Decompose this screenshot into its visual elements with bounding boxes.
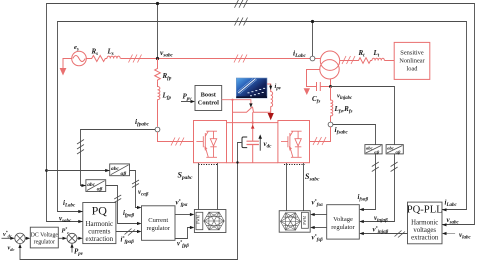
wire: v_sabc to transform A: [47, 170, 110, 172]
Current regulator box: [142, 206, 176, 241]
wire: v_injab to voltage regulator: [360, 154, 394, 222]
slashes after transformer: [342, 56, 355, 64]
sensor i_fsabc: [328, 122, 333, 127]
source e_s: [63, 51, 86, 68]
DC link rails: [227, 100, 278, 163]
slashes on bus lines: [235, 0, 248, 26]
red arrow on dc rail: [251, 125, 255, 129]
wire: i_fsabc sense to transform C: [333, 125, 376, 145]
svg-text:Nonlinear: Nonlinear: [399, 58, 425, 65]
pv current arrow into dc bus: [268, 113, 274, 120]
inductor Lt: [372, 58, 384, 60]
inductor Ls: [107, 56, 120, 58]
PQ box: [83, 203, 116, 244]
wire: v_injabc sense to transform D: [331, 87, 395, 145]
svg-text:PWM: PWM: [197, 214, 201, 223]
wire: v_sabc sense bus (top line): [47, 4, 475, 225]
shunt branch: Rfp: [155, 59, 161, 82]
wire: i_Labc sense bus (second line): [58, 22, 467, 212]
svg-text:extraction: extraction: [86, 236, 114, 243]
PQ-PLL input arrows: [442, 208, 447, 211]
wire: transformer to Rt: [340, 60, 357, 62]
svg-text:abc: abc: [366, 146, 373, 151]
boost switch: [233, 107, 271, 112]
DC Voltage regulator box: [30, 227, 58, 248]
svg-text:Harmonic: Harmonic: [86, 221, 114, 228]
v_dc feedback wire: [20, 143, 242, 260]
wire: v*_fpb to SVM: [175, 228, 190, 239]
wire: i_fpab to current regulator: [106, 186, 141, 224]
Voltage regulator box: [327, 205, 360, 239]
svg-text:Harmonic: Harmonic: [411, 220, 438, 227]
transform abc/ab D: [386, 145, 403, 155]
SVM block (series): [279, 211, 310, 233]
svg-text:αβ: αβ: [121, 171, 127, 177]
dotted gate bus (series): [284, 164, 305, 166]
inductor Lfp: [158, 82, 160, 127]
Boost Control box: [195, 86, 222, 111]
transform abc/ab C: [365, 145, 382, 155]
svg-text:PQ-PLL: PQ-PLL: [407, 205, 443, 216]
PQ-PLL box: [408, 202, 443, 244]
v_dc probe bracket: [242, 137, 247, 148]
svg-text:regulator: regulator: [331, 224, 355, 231]
input v_labc (stub): [446, 233, 455, 235]
PV panel: [236, 78, 267, 98]
svg-text:PWM: PWM: [303, 215, 307, 224]
svg-text:currents: currents: [88, 229, 111, 236]
wire to load: [384, 60, 394, 62]
i_pv arrow: [269, 86, 272, 90]
svg-text:load: load: [406, 66, 418, 73]
svg-text:Voltage: Voltage: [333, 216, 353, 223]
summing node 2: [67, 233, 77, 243]
slashes on series wire: [313, 137, 326, 145]
node on gate wire: [231, 99, 233, 101]
slash on i_fpab wire: [114, 195, 121, 203]
dotted gate bus (parallel): [199, 164, 218, 166]
svg-text:PQ: PQ: [92, 204, 108, 218]
wire: sum1 to DC regulator: [25, 237, 27, 239]
wire: v_cab to current regulator: [130, 171, 141, 208]
svg-text:Sensitive: Sensitive: [400, 50, 424, 57]
svg-text:abc: abc: [387, 146, 394, 151]
wire: source to PCC: [121, 58, 321, 60]
wire: i_fpabc sense to transform B: [81, 130, 156, 186]
svg-text:abc: abc: [111, 166, 119, 172]
IGBT Q2 (series converter): [281, 131, 302, 157]
wire: v*_fsa to SVM (series): [314, 214, 327, 216]
node: v_sabc branch to abc/ab transform: [45, 169, 48, 172]
IGBT Q1 (parallel converter): [196, 131, 217, 157]
node: v_sabc PCC junction: [156, 57, 159, 60]
transform abc/ab B: [81, 184, 86, 187]
inductor Lfs Rfs: [331, 87, 333, 123]
load box: Sensitive Nonlinear load: [394, 42, 430, 79]
wire: v*_injab PQ-PLL to voltage regulator: [360, 233, 407, 235]
svg-text:regulator: regulator: [146, 225, 170, 232]
node: v_injabc junction: [329, 85, 332, 88]
boost inductor (pv side): [267, 84, 273, 113]
sensor i_Labc: [310, 56, 315, 61]
wire: series branch to converter: [310, 127, 331, 142]
wire: DC regulator to sum2, P*_c: [58, 237, 64, 239]
ground (secondary): [304, 88, 310, 95]
P_pv input to sum2: [71, 247, 73, 253]
resistor Rt: [357, 58, 372, 64]
wire: i_fsab to voltage regulator: [360, 154, 375, 210]
transform abc/ab A: [105, 169, 110, 172]
wire: v*_fsb to SVM (series): [314, 227, 327, 229]
converter box (series): [278, 121, 310, 163]
sensor i_fpabc: [155, 127, 160, 132]
v_dc measurement arrow: [259, 138, 261, 151]
node: boost output on rail: [252, 121, 254, 123]
converter box (parallel): [194, 121, 227, 163]
svg-text:abc: abc: [87, 182, 95, 188]
P_pv input to boost control: [181, 101, 191, 103]
svg-text:DC Voltage: DC Voltage: [31, 233, 59, 239]
svg-text:regulator: regulator: [34, 240, 55, 246]
svg-text:Boost: Boost: [201, 92, 217, 99]
svg-text:Control: Control: [198, 100, 219, 107]
ground (source): [60, 68, 67, 76]
node: v_sabc top junction: [156, 2, 159, 5]
svg-text:Current: Current: [148, 217, 168, 224]
summing node 1: [15, 233, 25, 243]
wire: v*_fpa to SVM: [175, 214, 190, 216]
boost gate wire: [222, 100, 251, 104]
input v*_dc: [2, 237, 13, 239]
capacitor CB (dc link): [247, 141, 259, 144]
slashes on i_fpabc wire: [77, 140, 84, 155]
wire: shunt branch into parallel converter: [158, 132, 194, 142]
svg-text:αβ: αβ: [374, 149, 380, 154]
svg-text:extraction: extraction: [411, 235, 439, 242]
SVM block (parallel): [194, 210, 226, 233]
resistor Rs: [86, 56, 107, 62]
wire: i*_fpab PQ to current regulator: [116, 231, 141, 233]
wire: sum2 to PQ: [77, 237, 80, 239]
svg-text:voltages: voltages: [413, 227, 436, 234]
gate wires S_sabc: [287, 163, 304, 211]
svg-text:αβ: αβ: [396, 149, 402, 154]
slashes on source line: [129, 55, 248, 63]
slash on v_cab wire: [132, 180, 139, 188]
transformer secondary loop + capacitor Cfs: [307, 70, 331, 92]
gate wires S_pabc: [199, 163, 218, 210]
node: i_Labc top junction: [311, 20, 314, 23]
transformer T (series injection): [320, 51, 340, 79]
svg-text:αβ: αβ: [97, 187, 103, 193]
